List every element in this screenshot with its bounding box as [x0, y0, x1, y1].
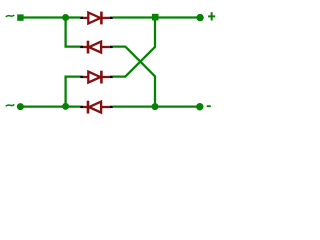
- junction top-right (square): [152, 14, 159, 21]
- diode D3 (row 3, pointing right): [80, 71, 112, 84]
- junction bottom-left (round): [62, 103, 69, 110]
- label ~ (AC1): [6, 15, 15, 17]
- terminal pad - (round): [196, 103, 203, 110]
- wire: AC2 pad to bottom-left junction to diode D4 (row 4): [21, 105, 80, 107]
- label +: [208, 12, 215, 20]
- wire: D2 right lead, bend, diagonal down to right column, down to bottom junction: [113, 47, 155, 107]
- wire: AC1 pad to left junction to diode D1 (row 1): [21, 16, 80, 18]
- wire: bottom-left junction up to row 3, to diode D3: [66, 77, 81, 107]
- wire: D4 right lead to - terminal (row 4): [113, 105, 200, 107]
- terminal pad + (round): [196, 14, 203, 21]
- terminal pad AC1 (square): [17, 14, 23, 20]
- wire: D3 right lead, bend, diagonal up to right column, up to top square junction: [113, 18, 155, 77]
- diode D1 (row 1, pointing right): [80, 12, 112, 25]
- diode D2 (row 2, pointing left): [80, 41, 112, 54]
- terminal pad AC2 (round): [17, 103, 24, 110]
- wire: D1 right lead to + terminal (row 1): [113, 16, 200, 18]
- label ~ (AC2): [6, 104, 15, 106]
- label -: [207, 105, 211, 107]
- junction bottom-right (round): [152, 103, 159, 110]
- junction top-left (round): [62, 14, 69, 21]
- diode D4 (row 4, pointing left): [80, 101, 112, 114]
- wire: left junction down to row 2, to diode D2: [66, 18, 81, 47]
